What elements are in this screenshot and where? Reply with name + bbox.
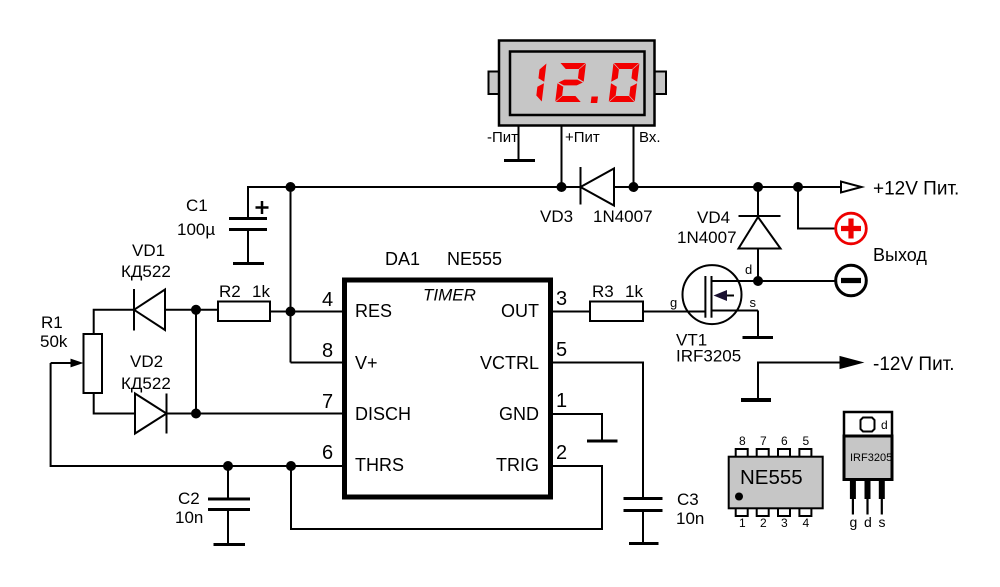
wire display -Пит lead bbox=[518, 126, 520, 161]
wire V+ branch bbox=[291, 362, 343, 364]
wire R2 to RES junction bbox=[270, 311, 342, 313]
wire +12V output arrow lead bbox=[798, 186, 841, 188]
svg-text:+Пит: +Пит bbox=[565, 129, 600, 146]
diode VD4 bbox=[739, 187, 781, 281]
junction Вх. bbox=[629, 182, 639, 192]
svg-text:6: 6 bbox=[322, 442, 333, 464]
ground GND pin bbox=[587, 440, 618, 443]
svg-text:R1: R1 bbox=[41, 313, 63, 332]
svg-text:d: d bbox=[881, 418, 888, 432]
junction C2 node bbox=[223, 461, 233, 471]
svg-text:g: g bbox=[850, 514, 858, 530]
ground -12V rail bbox=[741, 398, 771, 402]
junction node A bbox=[191, 305, 201, 315]
svg-text:10n: 10n bbox=[175, 508, 203, 527]
svg-text:100µ: 100µ bbox=[177, 220, 215, 239]
display digit 2 bbox=[555, 63, 586, 102]
wire node A vertical bbox=[195, 310, 197, 414]
svg-text:5: 5 bbox=[803, 434, 810, 448]
wire GND pin to ground bbox=[553, 414, 602, 441]
wire VD1 cathode to R1 top bbox=[94, 310, 134, 334]
diode VD2 bbox=[135, 394, 167, 434]
node +12V Пит. arrow bbox=[841, 182, 862, 193]
svg-text:g: g bbox=[670, 295, 677, 310]
wire TRIG return path bbox=[291, 466, 602, 529]
svg-text:4: 4 bbox=[322, 289, 333, 311]
svg-text:КД522: КД522 bbox=[121, 262, 171, 281]
wire OUT to R3 bbox=[553, 311, 590, 313]
svg-text:1k: 1k bbox=[625, 282, 643, 301]
svg-text:OUT: OUT bbox=[501, 301, 539, 321]
svg-text:+12V Пит.: +12V Пит. bbox=[873, 179, 959, 200]
IRF3205 TO-220 package bbox=[844, 412, 892, 515]
svg-text:V+: V+ bbox=[355, 353, 378, 373]
wire R3 to gate bbox=[643, 311, 705, 313]
svg-text:8: 8 bbox=[739, 434, 746, 448]
svg-text:TRIG: TRIG bbox=[496, 455, 539, 475]
node -12V Пит. arrow bbox=[840, 357, 863, 369]
junction VT1 drain bbox=[753, 276, 763, 286]
NE555 DIP-8 package pinout bbox=[729, 449, 823, 516]
svg-text:8: 8 bbox=[322, 340, 333, 362]
svg-text:7: 7 bbox=[760, 434, 767, 448]
svg-text:R2: R2 bbox=[219, 282, 241, 301]
svg-text:7: 7 bbox=[322, 391, 333, 413]
svg-text:NE555: NE555 bbox=[740, 466, 803, 489]
display decimal point bbox=[591, 97, 598, 104]
resistor R3 bbox=[590, 302, 643, 322]
svg-text:2: 2 bbox=[556, 442, 567, 464]
svg-text:-Пит: -Пит bbox=[487, 129, 518, 146]
node output minus terminal bbox=[836, 265, 867, 296]
junction C1 top bbox=[286, 182, 296, 192]
svg-text:1: 1 bbox=[556, 390, 567, 412]
svg-text:VD4: VD4 bbox=[697, 208, 730, 227]
display digit 1 bbox=[536, 64, 547, 102]
svg-text:Вх.: Вх. bbox=[639, 129, 661, 146]
svg-text:NE555: NE555 bbox=[447, 249, 502, 269]
svg-text:1: 1 bbox=[739, 516, 746, 530]
svg-text:3: 3 bbox=[556, 288, 567, 310]
junction VD4 bbox=[753, 182, 763, 192]
wire VD1 anode to node A bbox=[165, 309, 218, 311]
wire display +Пит lead bbox=[561, 126, 563, 188]
svg-text:5: 5 bbox=[556, 339, 567, 361]
svg-text:10n: 10n bbox=[676, 509, 704, 528]
wire display Вх. lead bbox=[633, 126, 635, 188]
svg-text:C3: C3 bbox=[677, 490, 699, 509]
svg-text:VCTRL: VCTRL bbox=[480, 353, 539, 373]
svg-text:s: s bbox=[879, 514, 886, 530]
display digit 0 bbox=[609, 63, 640, 102]
wire to minus output bbox=[758, 280, 835, 282]
svg-text:-12V Пит.: -12V Пит. bbox=[873, 354, 955, 375]
svg-text:6: 6 bbox=[781, 434, 788, 448]
transistor VT1 MOSFET bbox=[683, 265, 759, 324]
junction + output branch bbox=[793, 182, 803, 192]
svg-text:RES: RES bbox=[355, 301, 392, 321]
capacitor C2 bbox=[208, 466, 250, 544]
svg-text:TIMER: TIMER bbox=[423, 286, 476, 305]
wire VCTRL to C3 bbox=[553, 363, 643, 499]
ground C1 bbox=[233, 262, 264, 265]
svg-text:THRS: THRS bbox=[355, 455, 404, 475]
ground display -Пит bbox=[504, 159, 535, 162]
capacitor C3 bbox=[624, 499, 663, 544]
ground C2 bbox=[214, 543, 246, 546]
voltmeter display module PV1 bbox=[489, 41, 667, 126]
svg-text:КД522: КД522 bbox=[121, 374, 171, 393]
svg-text:R3: R3 bbox=[592, 282, 614, 301]
potentiometer R1 bbox=[51, 334, 102, 393]
svg-text:50k: 50k bbox=[40, 332, 68, 351]
wire R1 bottom to VD2 anode bbox=[94, 393, 135, 414]
op-amp/timer IC DA1 box bbox=[345, 280, 551, 497]
resistor R2 bbox=[218, 302, 270, 322]
svg-text:1N4007: 1N4007 bbox=[677, 228, 737, 247]
svg-text:d: d bbox=[864, 514, 872, 530]
ground VT1 source bbox=[743, 336, 774, 339]
svg-text:VD1: VD1 bbox=[132, 241, 165, 260]
svg-text:1k: 1k bbox=[252, 282, 270, 301]
junction node B bbox=[191, 409, 201, 419]
junction +Пит bbox=[557, 182, 567, 192]
svg-text:4: 4 bbox=[803, 516, 810, 530]
svg-text:Выход: Выход bbox=[873, 245, 927, 265]
svg-text:VD2: VD2 bbox=[130, 352, 163, 371]
svg-text:2: 2 bbox=[760, 516, 767, 530]
capacitor C1 bbox=[229, 186, 269, 263]
svg-text:DISCH: DISCH bbox=[355, 404, 411, 424]
wire VT1 source to ground bbox=[757, 311, 759, 338]
svg-text:C2: C2 bbox=[178, 489, 200, 508]
wire R1 wiper to THRS bbox=[51, 363, 342, 466]
diode VD1 bbox=[134, 289, 165, 331]
node output plus terminal bbox=[836, 213, 867, 244]
ground C3 bbox=[629, 542, 659, 545]
svg-text:3: 3 bbox=[781, 516, 788, 530]
wire to plus output bbox=[798, 187, 835, 229]
wire +12V rail bbox=[248, 186, 840, 188]
wire VD2 cathode to DISCH bbox=[167, 413, 343, 415]
svg-text:C1: C1 bbox=[186, 196, 208, 215]
svg-text:s: s bbox=[750, 295, 757, 310]
svg-text:IRF3205: IRF3205 bbox=[676, 347, 741, 366]
wire +12V to RES junction bbox=[290, 187, 292, 363]
diode VD3 bbox=[581, 167, 615, 206]
wire -12V rail bbox=[758, 363, 841, 400]
svg-text:GND: GND bbox=[499, 404, 539, 424]
junction RES node bbox=[286, 307, 296, 317]
junction TRIG return node bbox=[286, 461, 296, 471]
svg-text:d: d bbox=[745, 262, 752, 277]
svg-text:IRF3205: IRF3205 bbox=[850, 452, 892, 464]
svg-text:1N4007: 1N4007 bbox=[593, 207, 653, 226]
svg-text:VD3: VD3 bbox=[540, 207, 573, 226]
svg-text:DA1: DA1 bbox=[385, 249, 420, 269]
